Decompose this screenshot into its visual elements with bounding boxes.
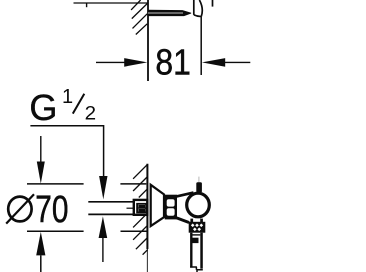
handle stub <box>196 182 202 193</box>
outlet knurled nut <box>189 222 206 233</box>
outlet neck <box>190 219 193 223</box>
wall line (top view) <box>147 0 149 81</box>
pipe clip block <box>193 238 199 243</box>
svg-text:70: 70 <box>35 189 68 231</box>
wall hatching (top view) <box>131 0 147 35</box>
svg-text:1: 1 <box>62 86 73 108</box>
G1/2 up arrow to pipe bottom <box>99 216 108 238</box>
diameter 70 bottom extension line <box>27 230 84 232</box>
shower outlet pipe <box>190 233 192 268</box>
union nut (front view) <box>134 200 148 215</box>
label leader bracket <box>30 126 103 176</box>
diameter 70 top extension line <box>27 183 84 185</box>
valve link top edge <box>177 193 194 197</box>
supply pipe (front view) <box>88 201 134 203</box>
dimension 81 right arrow <box>224 61 250 63</box>
svg-text:2: 2 <box>85 102 97 124</box>
svg-text:G: G <box>29 87 57 128</box>
handle wheel <box>187 193 210 217</box>
diameter 70 up arrow <box>36 232 45 256</box>
handle stem faint line <box>198 177 200 183</box>
81 right extension line <box>200 17 202 76</box>
rail tick <box>86 3 88 7</box>
wall hatching (front view) <box>133 164 148 254</box>
valve body end cap (top view) <box>193 0 195 15</box>
leader arrow down to pipe thread <box>99 176 107 199</box>
union pipe bar (top view) <box>148 10 192 16</box>
pipe centerline stub <box>127 207 134 209</box>
escutcheon cone <box>151 185 164 226</box>
valve link bottom edge <box>177 218 189 223</box>
diameter symbol circle <box>8 197 31 222</box>
dimension 81 left arrow <box>96 61 126 63</box>
diameter 70 down arrow <box>40 136 42 163</box>
wall line (front view) <box>146 164 148 249</box>
pipe top crossbar <box>193 234 201 236</box>
shower rail line (top view, cropped) <box>74 2 148 4</box>
body edge tick (top view) <box>212 0 214 7</box>
diameter symbol slash <box>6 194 34 223</box>
svg-text:81: 81 <box>155 41 191 82</box>
valve link <box>177 193 196 222</box>
fraction slash <box>73 94 85 114</box>
pipe outlet step <box>190 267 203 272</box>
wall extension line below (front view) <box>146 249 148 272</box>
union knurled ring <box>165 195 177 220</box>
